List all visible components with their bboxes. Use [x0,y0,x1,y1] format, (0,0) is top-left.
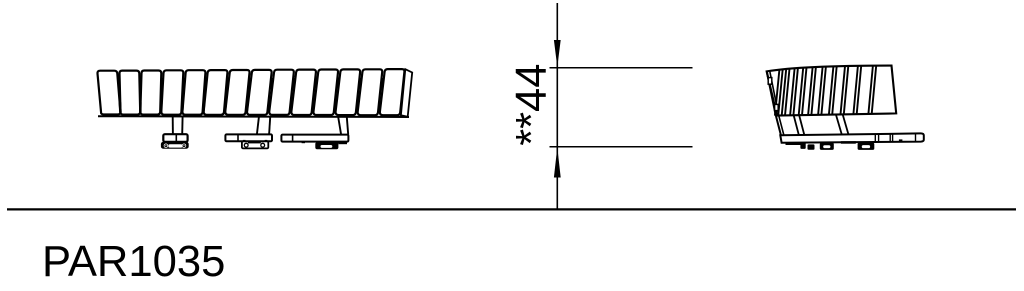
svg-text:PAR1035: PAR1035 [42,238,225,286]
svg-text:**44: **44 [508,64,556,146]
